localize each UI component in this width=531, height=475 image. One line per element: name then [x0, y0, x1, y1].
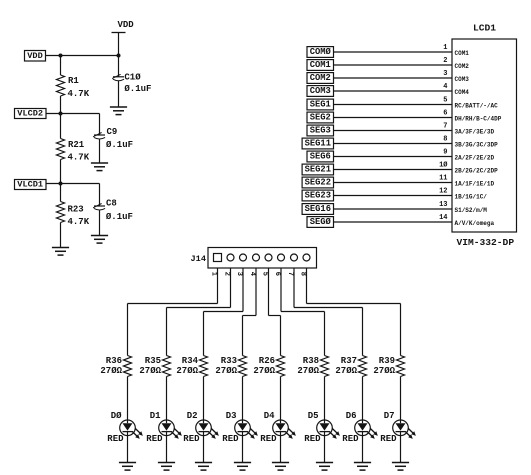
svg-text:COM1: COM1: [310, 60, 331, 70]
wire VLCD2 net: [46, 113, 100, 115]
svg-text:COM1: COM1: [455, 50, 470, 57]
J14 pin 2 (circle): [227, 254, 234, 261]
svg-text:6: 6: [443, 110, 447, 118]
junction at R1 top: [59, 54, 63, 58]
svg-text:SEG21: SEG21: [305, 165, 331, 175]
resistor R35 270ohm: [139, 356, 170, 377]
resistor R33 270ohm: [215, 356, 246, 377]
svg-text:D3: D3: [226, 411, 237, 421]
resistor R21: [57, 114, 90, 184]
capacitor C8: [93, 184, 133, 236]
net label VLCD1: [15, 180, 47, 190]
wire VLCD1 net: [46, 183, 100, 185]
net label COM3 (pin 4): [307, 86, 334, 97]
wire J14 pin 5 to branch 5: [269, 268, 281, 356]
svg-text:Ø.1uF: Ø.1uF: [106, 212, 133, 222]
J14 pin 1 (square): [214, 254, 222, 262]
net label SEG21 (pin 10): [302, 164, 333, 175]
wire LED D0 to ground: [127, 436, 129, 463]
wire VDD net: [46, 55, 119, 57]
svg-text:D2: D2: [187, 411, 198, 421]
wire LED D6 to ground: [362, 436, 364, 463]
svg-text:27ØΩ: 27ØΩ: [297, 366, 319, 376]
svg-text:VLCD2: VLCD2: [17, 109, 43, 119]
wire to LCD1 pin 6: [334, 117, 453, 119]
svg-text:2: 2: [443, 57, 447, 65]
net label SEG11 (pin 8): [302, 138, 333, 149]
svg-text:7: 7: [443, 123, 447, 131]
wire J14 pin 7 to branch 7: [294, 268, 363, 356]
svg-text:2B/2G/2C/2DP: 2B/2G/2C/2DP: [455, 167, 499, 174]
ground under C10: [110, 106, 127, 108]
svg-text:A/V/K/omega: A/V/K/omega: [455, 220, 495, 227]
ground under D6: [354, 462, 371, 464]
svg-text:DØ: DØ: [111, 411, 122, 421]
wire R35 to LED D1: [166, 377, 168, 421]
svg-text:9: 9: [443, 149, 447, 157]
LED D0 RED: [107, 411, 142, 444]
ground under D2: [195, 462, 212, 464]
svg-text:C8: C8: [106, 199, 117, 209]
svg-text:COM3: COM3: [310, 86, 331, 96]
svg-text:D5: D5: [308, 411, 319, 421]
resistor R34 270ohm: [176, 356, 207, 377]
ground under D1: [158, 462, 175, 464]
svg-text:8: 8: [299, 272, 307, 276]
LCD1 connector body: [452, 39, 517, 232]
svg-text:COM4: COM4: [455, 89, 470, 96]
svg-text:27ØΩ: 27ØΩ: [215, 366, 237, 376]
wire J14 pin 1 to branch 1: [128, 268, 218, 356]
svg-text:VDD: VDD: [27, 51, 42, 61]
capacitor C10: [112, 56, 151, 108]
svg-text:COM2: COM2: [455, 63, 470, 70]
svg-text:3: 3: [443, 70, 447, 78]
wire R39 to LED D7: [400, 377, 402, 421]
svg-text:7: 7: [286, 272, 294, 276]
ground under C9: [91, 162, 108, 164]
LED D2 RED: [183, 411, 218, 444]
wire R34 to LED D2: [203, 377, 205, 421]
svg-text:SEG3: SEG3: [310, 126, 331, 136]
svg-text:R36: R36: [106, 356, 122, 366]
svg-text:1B/1G/1C/: 1B/1G/1C/: [455, 193, 488, 200]
connector J14 body: [208, 248, 317, 269]
svg-text:1: 1: [210, 272, 218, 276]
wire to LCD1 pin 13: [334, 208, 453, 210]
wire LED D3 to ground: [242, 436, 244, 463]
svg-text:Ø.1uF: Ø.1uF: [106, 140, 133, 150]
svg-text:VDD: VDD: [118, 20, 135, 30]
svg-text:D6: D6: [346, 411, 357, 421]
svg-text:LCD1: LCD1: [473, 23, 496, 34]
svg-text:3: 3: [235, 272, 243, 276]
net label SEG22 (pin 11): [302, 177, 333, 188]
svg-text:6: 6: [273, 272, 281, 276]
net label COM2 (pin 3): [307, 73, 334, 84]
svg-text:13: 13: [439, 201, 447, 209]
svg-text:SEG2: SEG2: [310, 113, 331, 123]
wire to LCD1 pin 9: [334, 156, 453, 158]
wire LED D5 to ground: [324, 436, 326, 463]
svg-text:RED: RED: [304, 434, 321, 444]
svg-text:4: 4: [248, 272, 256, 276]
wire J14 pin 6 to branch 6: [281, 268, 325, 356]
net label SEG0 (pin 14): [307, 217, 334, 228]
svg-text:4: 4: [443, 83, 447, 91]
svg-text:R33: R33: [221, 356, 237, 366]
svg-text:8: 8: [443, 136, 447, 144]
svg-text:RED: RED: [146, 434, 163, 444]
J14 pin 7 (circle): [291, 254, 298, 261]
svg-text:R37: R37: [341, 356, 357, 366]
svg-text:DH/RH/B-C/4DP: DH/RH/B-C/4DP: [455, 115, 502, 122]
svg-text:D1: D1: [150, 411, 161, 421]
svg-text:S1/S2/m/M: S1/S2/m/M: [455, 207, 488, 214]
wire J14 pin 3 to branch 3: [204, 268, 244, 356]
wire to LCD1 pin 3: [334, 77, 453, 79]
svg-text:2: 2: [223, 272, 231, 276]
svg-text:RC/BATT/-/AC: RC/BATT/-/AC: [455, 102, 499, 109]
svg-text:2A/2F/2E/2D: 2A/2F/2E/2D: [455, 154, 495, 161]
wire to LCD1 pin 7: [334, 130, 453, 132]
ground under R23: [52, 247, 69, 249]
svg-text:J14: J14: [191, 254, 206, 264]
wire to LCD1 pin 5: [334, 104, 453, 106]
resistor R37 270ohm: [335, 356, 366, 377]
J14 pin 5 (circle): [265, 254, 272, 261]
net label VLCD2: [15, 109, 47, 119]
J14 pin 4 (circle): [253, 254, 260, 261]
wire R38 to LED D5: [324, 377, 326, 421]
ground under D5: [316, 462, 333, 464]
resistor R23: [57, 184, 90, 248]
wire R26 to LED D4: [280, 377, 282, 421]
junction VLCD1/R21: [59, 182, 63, 186]
svg-text:3B/3G/3C/3DP: 3B/3G/3C/3DP: [455, 141, 499, 148]
wire to LCD1 pin 4: [334, 90, 453, 92]
svg-text:4.7K: 4.7K: [68, 217, 90, 227]
svg-text:VIM-332-DP: VIM-332-DP: [457, 237, 515, 248]
wire to LCD1 pin 14: [334, 221, 453, 223]
svg-text:COM3: COM3: [455, 76, 470, 83]
junction at C10 top: [117, 54, 121, 58]
net label SEG1 (pin 5): [307, 99, 334, 110]
svg-text:4.7K: 4.7K: [68, 89, 90, 99]
svg-text:RED: RED: [380, 434, 397, 444]
svg-text:1: 1: [443, 44, 447, 52]
wire to LCD1 pin 10: [334, 169, 453, 171]
wire to LCD1 pin 8: [334, 143, 453, 145]
ground under D7: [392, 462, 409, 464]
svg-text:R26: R26: [259, 356, 275, 366]
wire to LCD1 pin 11: [334, 182, 453, 184]
svg-text:COM2: COM2: [310, 73, 331, 83]
svg-text:4.7K: 4.7K: [68, 152, 90, 162]
net label SEG16 (pin 13): [302, 204, 333, 215]
svg-text:C9: C9: [107, 127, 118, 137]
resistor R1: [57, 56, 90, 114]
svg-text:5: 5: [261, 272, 269, 276]
svg-text:3A/3F/3E/3D: 3A/3F/3E/3D: [455, 128, 495, 135]
resistor R38 270ohm: [297, 356, 328, 377]
svg-text:COMØ: COMØ: [310, 47, 332, 57]
wire to LCD1 pin 1: [334, 51, 453, 53]
LED D7 RED: [380, 411, 415, 444]
svg-text:R23: R23: [68, 205, 84, 215]
wire R37 to LED D6: [362, 377, 364, 421]
svg-text:D7: D7: [384, 411, 395, 421]
wire to LCD1 pin 12: [334, 195, 453, 197]
capacitor C9: [93, 114, 133, 164]
wire LED D1 to ground: [166, 436, 168, 463]
net label SEG23 (pin 12): [302, 190, 333, 201]
svg-text:RED: RED: [260, 434, 277, 444]
wire R33 to LED D3: [242, 377, 244, 421]
svg-text:27ØΩ: 27ØΩ: [176, 366, 198, 376]
wire LED D4 to ground: [280, 436, 282, 463]
power symbol VDD: [112, 20, 135, 55]
svg-text:14: 14: [439, 214, 447, 222]
net label VDD: [25, 51, 46, 62]
svg-text:5: 5: [443, 97, 447, 105]
net label COM0 (pin 1): [307, 47, 334, 58]
svg-text:D4: D4: [264, 411, 275, 421]
wire J14 pin 2 to branch 2: [167, 268, 231, 356]
wire LED D7 to ground: [400, 436, 402, 463]
svg-text:Ø.1uF: Ø.1uF: [124, 84, 151, 94]
svg-text:27ØΩ: 27ØΩ: [100, 366, 122, 376]
net label SEG2 (pin 6): [307, 112, 334, 123]
ground under C8: [91, 235, 108, 237]
LED D5 RED: [304, 411, 339, 444]
svg-text:R35: R35: [145, 356, 161, 366]
svg-text:RED: RED: [183, 434, 200, 444]
svg-text:SEG22: SEG22: [305, 178, 331, 188]
LED D1 RED: [146, 411, 181, 444]
svg-text:C1Ø: C1Ø: [124, 73, 141, 83]
svg-text:27ØΩ: 27ØΩ: [253, 366, 275, 376]
J14 pin 3 (circle): [240, 254, 247, 261]
svg-text:SEG1: SEG1: [310, 100, 331, 110]
svg-text:SEG16: SEG16: [305, 204, 331, 214]
svg-text:SEG6: SEG6: [310, 152, 331, 162]
wire to LCD1 pin 2: [334, 64, 453, 66]
ground under D0: [119, 462, 136, 464]
svg-text:R34: R34: [182, 356, 199, 366]
svg-text:1A/1F/1E/1D: 1A/1F/1E/1D: [455, 180, 495, 187]
svg-text:11: 11: [439, 175, 447, 183]
svg-text:SEGØ: SEGØ: [310, 217, 332, 227]
svg-text:SEG23: SEG23: [305, 191, 331, 201]
J14 pin 8 (circle): [303, 254, 310, 261]
svg-text:27ØΩ: 27ØΩ: [335, 366, 357, 376]
ground under D3: [234, 462, 251, 464]
svg-text:RED: RED: [107, 434, 124, 444]
svg-text:RED: RED: [222, 434, 239, 444]
junction VLCD2/R1: [59, 112, 63, 116]
svg-text:R39: R39: [379, 356, 395, 366]
LED D4 RED: [260, 411, 295, 444]
wire J14 pin 4 to branch 4: [243, 268, 257, 356]
J14 pin 6 (circle): [278, 254, 285, 261]
wire J14 pin 8 to branch 8: [307, 268, 401, 356]
resistor R26 270ohm: [253, 356, 284, 377]
ground under D4: [272, 462, 289, 464]
net label SEG3 (pin 7): [307, 125, 334, 136]
svg-text:RED: RED: [342, 434, 359, 444]
svg-text:27ØΩ: 27ØΩ: [373, 366, 395, 376]
LED D3 RED: [222, 411, 257, 444]
wire LED D2 to ground: [203, 436, 205, 463]
LED D6 RED: [342, 411, 377, 444]
svg-text:R38: R38: [303, 356, 319, 366]
svg-text:R1: R1: [68, 76, 79, 86]
svg-text:SEG11: SEG11: [305, 139, 331, 149]
svg-text:R21: R21: [68, 140, 85, 150]
svg-text:27ØΩ: 27ØΩ: [139, 366, 161, 376]
wire R36 to LED D0: [127, 377, 129, 421]
net label COM1 (pin 2): [307, 60, 334, 71]
resistor R39 270ohm: [373, 356, 404, 377]
resistor R36 270ohm: [100, 356, 131, 377]
svg-text:VLCD1: VLCD1: [17, 180, 43, 190]
net label SEG6 (pin 9): [307, 151, 334, 162]
svg-text:1Ø: 1Ø: [439, 161, 448, 170]
svg-text:12: 12: [439, 188, 447, 196]
